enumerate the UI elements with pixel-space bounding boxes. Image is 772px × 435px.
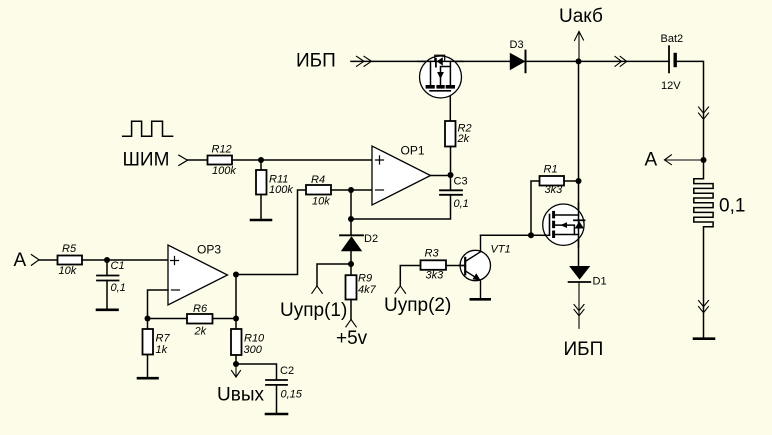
svg-text:Uакб: Uакб <box>559 6 603 27</box>
svg-text:3k3: 3k3 <box>545 184 564 196</box>
svg-text:10k: 10k <box>59 265 77 277</box>
svg-text:12V: 12V <box>661 80 681 92</box>
wire ИБП to MOSFET1 and D3 <box>351 60 510 62</box>
wire R11 top lead <box>260 160 262 170</box>
svg-text:C2: C2 <box>280 365 294 377</box>
wire R2 bottom to output node <box>450 147 452 176</box>
svg-text:А: А <box>14 250 27 271</box>
svg-text:D3: D3 <box>510 39 524 51</box>
resistor R12 <box>208 144 237 178</box>
node A right arrow <box>665 155 704 165</box>
resistor R5 <box>58 243 83 277</box>
svg-text:100k: 100k <box>212 165 236 177</box>
node ИБП input label <box>296 51 336 72</box>
svg-text:0,15: 0,15 <box>281 389 303 401</box>
resistor R6 <box>187 303 213 338</box>
node Uвых junction <box>233 361 239 367</box>
wire junction to battery with chevrons <box>579 56 670 66</box>
op-amp OP3 <box>168 243 228 306</box>
wire ШИМ to R12 <box>188 159 208 161</box>
resistor R7 <box>143 319 171 357</box>
node Uупр(1) label <box>280 300 347 321</box>
node ИБП output label <box>564 339 604 360</box>
svg-text:R7: R7 <box>156 333 171 345</box>
wire junction to R6 <box>148 318 188 320</box>
wire OP3 output to R4 <box>236 190 306 275</box>
svg-text:100k: 100k <box>269 184 293 196</box>
wire A to R5 <box>39 259 58 261</box>
svg-text:R9: R9 <box>358 273 372 285</box>
wire R9 to +5v connector <box>346 300 357 327</box>
svg-text:Bat2: Bat2 <box>661 33 684 45</box>
svg-text:10k: 10k <box>312 196 330 208</box>
resistor R2 <box>445 121 472 147</box>
wire gate lead MOSFET1 to R2 <box>449 91 451 121</box>
node OP3 output junction <box>233 272 239 278</box>
svg-text:0,1: 0,1 <box>111 282 126 294</box>
svg-text:C3: C3 <box>454 176 468 188</box>
svg-text:R12: R12 <box>212 144 232 156</box>
wire Uupr1 branch <box>312 264 351 293</box>
capacitor C1 <box>97 260 126 309</box>
node gate junction <box>528 232 534 238</box>
svg-text:0,1: 0,1 <box>454 198 469 210</box>
node ШИМ connector chevron <box>179 155 188 165</box>
svg-text:OP1: OP1 <box>401 144 425 158</box>
svg-text:OP3: OP3 <box>197 243 221 257</box>
ground under R7 <box>138 377 158 380</box>
svg-text:4k7: 4k7 <box>358 284 377 296</box>
svg-text:А: А <box>645 150 658 171</box>
wire R7 to ground <box>147 355 149 378</box>
svg-text:R6: R6 <box>193 303 208 315</box>
node R7/R6 junction <box>145 316 151 322</box>
svg-text:+5v: +5v <box>336 328 368 349</box>
wire R10 to Uvyh node <box>235 355 237 364</box>
ground shunt bottom <box>694 337 714 340</box>
node C1 junction <box>104 257 110 263</box>
wire R11 bottom lead <box>260 195 262 220</box>
node R1 junction <box>576 178 582 184</box>
node A right label <box>645 150 658 171</box>
svg-text:Uупр(2): Uупр(2) <box>384 295 451 316</box>
ground under R11 <box>251 219 271 222</box>
wire R3 to VT1 base <box>446 265 465 267</box>
wire R5 to OP3 + input <box>82 259 168 261</box>
resistor R9 <box>346 264 377 300</box>
wire battery down right branch <box>675 61 708 160</box>
svg-text:Uупр(1): Uупр(1) <box>280 300 347 321</box>
wire R3 left to Uupr2 connector <box>395 266 420 294</box>
svg-text:R5: R5 <box>62 243 77 255</box>
svg-text:1k: 1k <box>156 344 168 356</box>
diode D3 <box>510 39 526 72</box>
node A right junction <box>701 157 707 163</box>
wire OP3 minus input <box>148 290 169 319</box>
node ИБП input chevrons <box>357 56 372 66</box>
resistor R11 <box>256 170 293 196</box>
svg-text:VT1: VT1 <box>491 244 511 256</box>
resistor R1 <box>540 164 565 197</box>
svg-text:Uвых: Uвых <box>217 385 264 406</box>
wire minus node down to D2 <box>350 190 352 235</box>
node D2/R9 junction <box>348 261 354 267</box>
svg-text:2k: 2k <box>194 326 207 338</box>
svg-text:ИБП: ИБП <box>564 339 604 360</box>
ground under C2 <box>266 413 287 416</box>
capacitor C3 <box>440 175 469 210</box>
svg-text:2k: 2k <box>457 133 470 145</box>
svg-text:0,1: 0,1 <box>719 196 745 217</box>
wire D3 to Uakb junction <box>526 60 579 62</box>
node A left chevron <box>31 255 39 266</box>
node ШИМ label <box>123 150 170 171</box>
svg-text:300: 300 <box>244 344 263 356</box>
wire main battery vertical <box>578 61 580 266</box>
svg-text:ШИМ: ШИМ <box>123 150 170 171</box>
wire minus node to OP1 <box>351 189 372 191</box>
node A left label <box>14 250 27 271</box>
svg-text:D2: D2 <box>364 233 378 245</box>
wire D2 to junction <box>350 251 352 264</box>
transistor VT3 N-MOSFET bottom <box>541 203 585 247</box>
wire R6 to output node <box>213 318 237 320</box>
svg-text:R3: R3 <box>425 248 440 260</box>
ground VT1 emitter <box>471 298 490 301</box>
resistor R10 <box>231 319 265 357</box>
resistor R3 <box>421 248 447 282</box>
node feedback junction <box>348 216 354 222</box>
op-amp OP1 <box>372 144 431 206</box>
node OP1 output junction <box>448 172 454 178</box>
diode D1 <box>569 266 607 288</box>
svg-text:R4: R4 <box>311 174 325 186</box>
node Uупр(2) label <box>384 295 451 316</box>
node Uвых label <box>217 385 264 406</box>
wire R4 to minus node <box>331 189 351 191</box>
ground under C1 <box>97 308 118 311</box>
svg-text:3k3: 3k3 <box>426 270 445 282</box>
wire R1 left to gate wire <box>531 181 540 235</box>
shunt resistor 0,1 <box>694 160 713 338</box>
node OP1 minus junction <box>348 187 354 193</box>
square wave icon <box>123 121 173 136</box>
value 0,1 shunt label <box>719 196 745 217</box>
node Uакб junction <box>576 58 582 64</box>
svg-text:C1: C1 <box>111 260 125 272</box>
node junction R12/R11 <box>258 157 264 163</box>
svg-text:D1: D1 <box>593 276 607 288</box>
battery Bat2 <box>661 33 684 92</box>
node Uакб label <box>559 6 603 27</box>
wire R12 to OP1 + input <box>232 159 372 161</box>
transistor VT1 <box>459 235 511 299</box>
wire R1 right lead <box>564 180 579 182</box>
wire OP3 output down <box>235 275 237 319</box>
node Uвых arrow <box>232 364 241 377</box>
capacitor C2 <box>236 364 303 414</box>
wire C3 feedback to minus node <box>351 195 451 219</box>
svg-text:R1: R1 <box>544 164 558 176</box>
diode D2 <box>340 233 378 251</box>
node +5v label <box>336 328 368 349</box>
node R6/R10 junction <box>233 316 239 322</box>
wire VT1 collector to MOSFET2 gate <box>481 234 550 236</box>
svg-text:R10: R10 <box>244 333 265 345</box>
wire shunt bottom chevrons <box>699 301 709 313</box>
svg-text:ИБП: ИБП <box>296 51 336 72</box>
transistor VT2 P-MOSFET top <box>418 55 463 98</box>
node Uакб arrow <box>575 32 584 62</box>
wire D1 to ИБП out with chevrons <box>574 282 584 328</box>
wire OP1 output <box>431 175 451 177</box>
resistor R4 <box>306 174 331 208</box>
